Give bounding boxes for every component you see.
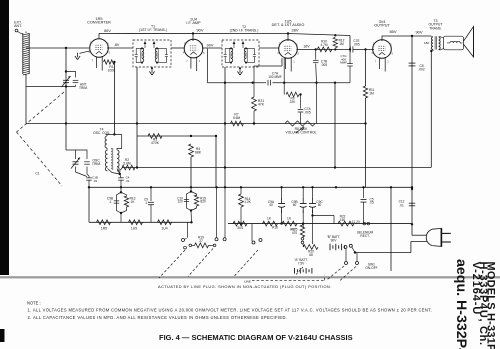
svg-text:CONVERTER: CONVERTER <box>87 21 111 25</box>
svg-text:VOLUME CONTROL: VOLUME CONTROL <box>286 131 317 135</box>
svg-text:ANT.: ANT. <box>14 24 22 28</box>
svg-text:150: 150 <box>340 218 346 222</box>
svg-text:LINE: LINE <box>244 279 251 283</box>
svg-text:.03: .03 <box>93 179 98 183</box>
svg-text:.002: .002 <box>418 67 425 71</box>
svg-text:OUTPUT: OUTPUT <box>374 24 390 28</box>
svg-text:2200: 2200 <box>244 52 248 58</box>
svg-text:I.F. AMP: I.F. AMP <box>186 21 201 25</box>
svg-text:28V: 28V <box>291 28 298 33</box>
svg-text:V-2164-U: V-2164-U <box>470 262 482 316</box>
svg-text:180: 180 <box>424 41 429 45</box>
svg-text:MMF: MMF <box>340 61 347 65</box>
svg-text:90V: 90V <box>415 30 422 35</box>
svg-text:1U4: 1U4 <box>161 227 167 231</box>
svg-text:22K: 22K <box>290 100 297 104</box>
svg-text:TRIM.: TRIM. <box>92 162 101 166</box>
svg-text:(2ND I.F. TRANS.): (2ND I.F. TRANS.) <box>230 29 259 33</box>
svg-text:TRANS.: TRANS. <box>429 27 441 31</box>
svg-text:.1: .1 <box>109 200 112 204</box>
svg-text:1500: 1500 <box>140 52 144 58</box>
svg-text:5.6M: 5.6M <box>233 116 241 120</box>
svg-text:.1: .1 <box>145 201 148 205</box>
svg-text:NOTE :: NOTE : <box>27 300 41 305</box>
svg-text:120: 120 <box>177 200 183 204</box>
svg-text:100 MMF: 100 MMF <box>268 75 282 79</box>
svg-text:1. ALL VOLTAGES MEASURED F: 1. ALL VOLTAGES MEASURED FROM COMMON NEG… <box>28 308 433 313</box>
svg-text:85V: 85V <box>389 29 396 34</box>
svg-text:.005: .005 <box>304 111 310 115</box>
svg-text:-8V: -8V <box>114 43 120 47</box>
svg-text:1U5: 1U5 <box>131 227 137 231</box>
svg-text:820: 820 <box>200 200 206 204</box>
svg-text:.05: .05 <box>369 201 374 205</box>
svg-text:86V: 86V <box>104 29 111 33</box>
svg-text:C1: C1 <box>35 172 39 176</box>
svg-text:470: 470 <box>292 231 298 235</box>
svg-text:90V: 90V <box>196 28 203 33</box>
svg-text:RECT.: RECT. <box>360 234 369 238</box>
svg-text:5.6M: 5.6M <box>123 162 131 166</box>
svg-text:2200: 2200 <box>155 52 159 58</box>
svg-text:ON-OFF: ON-OFF <box>365 266 377 270</box>
svg-text:47K: 47K <box>258 102 265 106</box>
svg-text:27: 27 <box>199 239 203 243</box>
svg-text:R16: R16 <box>272 226 278 230</box>
svg-text:1R5: 1R5 <box>101 227 107 231</box>
svg-text:60: 60 <box>293 203 297 207</box>
svg-text:16V: 16V <box>303 45 310 49</box>
svg-text:11.2V: 11.2V <box>352 220 361 224</box>
svg-text:1500: 1500 <box>229 52 233 58</box>
svg-text:TRIM.: TRIM. <box>79 86 88 90</box>
svg-text:(1ST I.F. TRANS.): (1ST I.F. TRANS.) <box>139 28 167 32</box>
svg-text:90V: 90V <box>331 238 338 242</box>
svg-text:7.5V: 7.5V <box>298 262 305 266</box>
svg-text:DET. & 1ST AUDIO: DET. & 1ST AUDIO <box>272 23 305 27</box>
svg-text:2. ALL CAPACITANCE VALUES: 2. ALL CAPACITANCE VALUES IN MFD. AND AL… <box>28 315 288 320</box>
svg-text:aequ. H-332P4: aequ. H-332P4 <box>453 259 469 349</box>
svg-text:80: 80 <box>318 203 322 207</box>
svg-text:68K: 68K <box>195 150 202 154</box>
svg-text:68: 68 <box>309 253 313 257</box>
svg-text:FIG. 4 — SCHEMATIC DIAGRAM: FIG. 4 — SCHEMATIC DIAGRAM OF V-2164U CH… <box>159 333 353 342</box>
svg-text:3V4: 3V4 <box>237 226 243 230</box>
svg-text:90V: 90V <box>207 44 214 48</box>
svg-text:1.2K: 1.2K <box>244 200 251 204</box>
svg-text:.01: .01 <box>399 204 404 208</box>
svg-text:1M: 1M <box>369 92 374 96</box>
svg-text:4.7M: 4.7M <box>320 43 327 47</box>
svg-text:470K: 470K <box>151 141 160 145</box>
svg-text:1M: 1M <box>339 42 344 46</box>
svg-text:100K: 100K <box>108 68 117 72</box>
svg-text:40: 40 <box>269 203 273 207</box>
svg-text:.005: .005 <box>353 43 359 47</box>
svg-text:ACTUATED BY LINE PLUG. SHO: ACTUATED BY LINE PLUG. SHOWN IN NON-ACTU… <box>158 284 332 289</box>
svg-text:.005: .005 <box>321 63 327 67</box>
svg-text:.01: .01 <box>125 179 130 183</box>
